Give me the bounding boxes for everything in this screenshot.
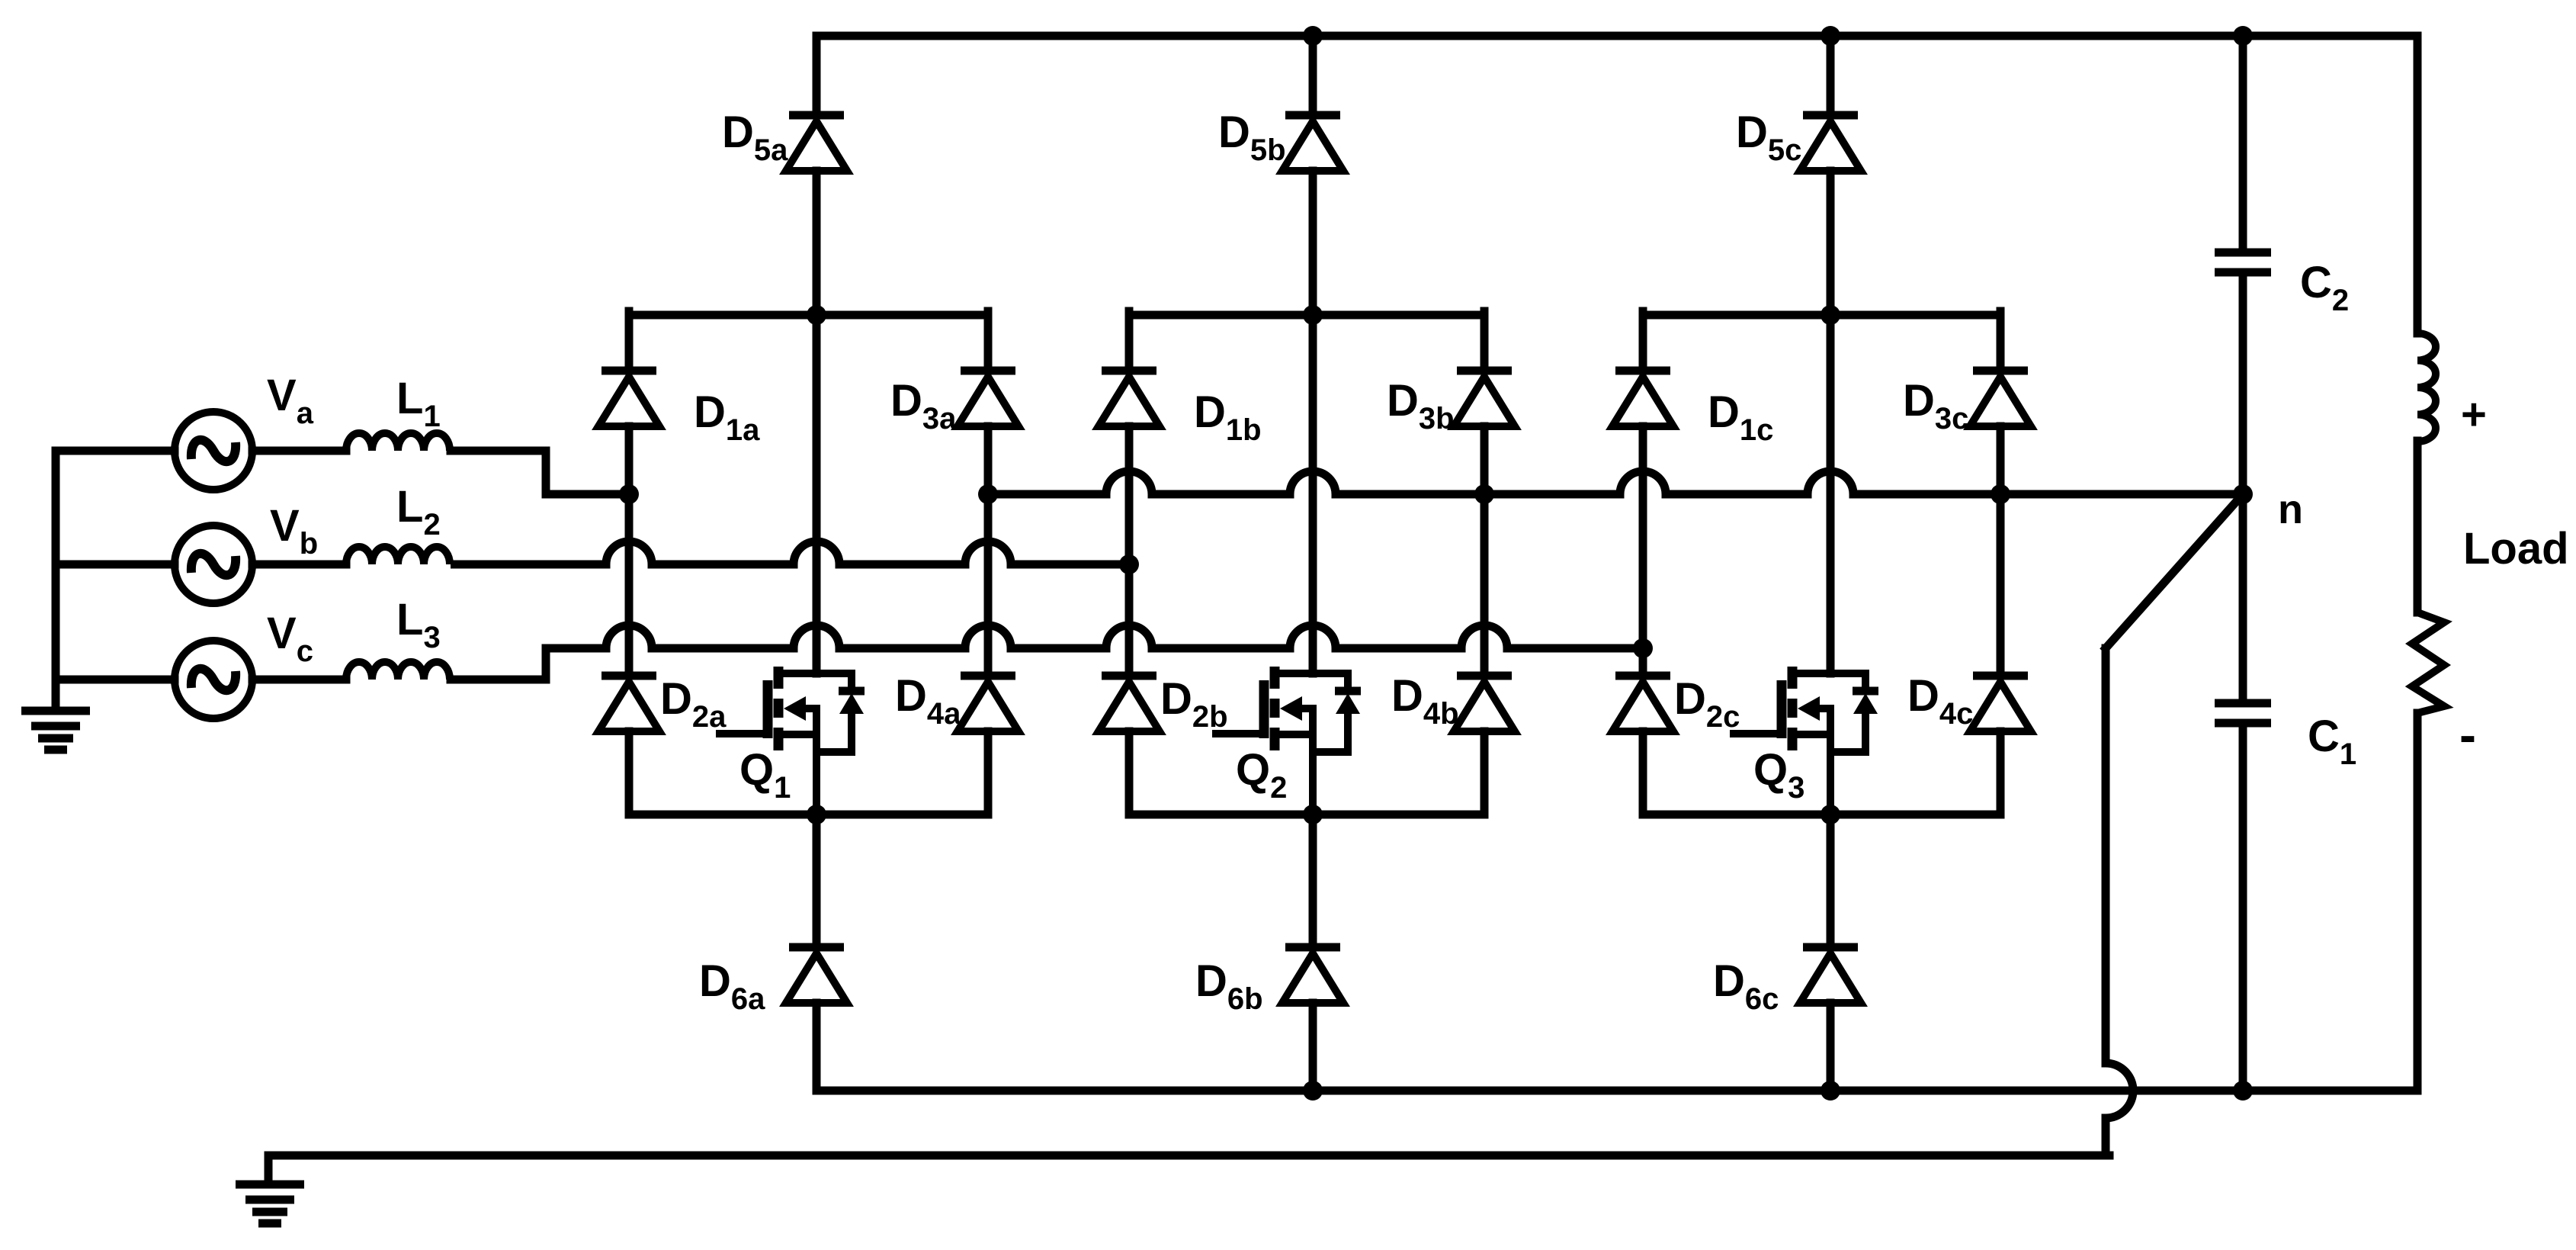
- wire D1c top lead: [1639, 311, 1647, 371]
- label D2b: [1160, 674, 1228, 734]
- diode D2c: [1612, 676, 1673, 731]
- label D1b: [1194, 387, 1262, 447]
- wire D3b top lead: [1480, 311, 1489, 371]
- svg-text:+: +: [2461, 390, 2487, 439]
- node D3c-D4c n tap: [1991, 484, 2010, 504]
- wire D6a top lead: [813, 815, 821, 947]
- diode D3b: [1454, 371, 1515, 426]
- label plus: [2461, 390, 2487, 439]
- wire bottom DC- rail: [816, 1087, 2417, 1095]
- wire D3b bottom lead to n junction: [1480, 426, 1489, 494]
- label Q2: [1236, 745, 1287, 805]
- wire D2a bottom lead: [625, 731, 634, 815]
- capacitor C2: [2215, 252, 2271, 272]
- diode D6a: [786, 947, 847, 1003]
- wire n diagonal: [2106, 494, 2243, 648]
- wire phase-a to D1a junction: [546, 490, 629, 499]
- wire leg c D5c cathode to top junction: [1827, 171, 1835, 315]
- wire L3 to step: [451, 676, 546, 684]
- wire D4c bottom lead: [1997, 731, 2005, 815]
- wire D4a bottom lead: [984, 731, 993, 815]
- source Vc: [175, 641, 252, 718]
- wire D3a bottom lead to n junction: [984, 426, 993, 494]
- node D3a-D4a n tap: [978, 484, 998, 504]
- label n: [2278, 487, 2303, 532]
- label L1: [396, 374, 441, 433]
- wire load top vertical: [2414, 36, 2422, 333]
- wire Va left lead: [56, 447, 175, 455]
- label D6b: [1195, 956, 1263, 1016]
- node rail / leg c: [1821, 1081, 1840, 1101]
- wire n-branch vertical lower: [2102, 1118, 2110, 1155]
- node leg a top junction: [807, 305, 826, 325]
- wire D2b bottom lead: [1125, 731, 1134, 815]
- node leg b top junction: [1303, 305, 1323, 325]
- wire Vb left lead: [56, 561, 175, 569]
- node D3b-D4b n tap: [1474, 484, 1494, 504]
- ground source side: [21, 711, 90, 750]
- transistor Q1: [720, 667, 865, 815]
- label Vb: [270, 501, 318, 561]
- diode D4a: [958, 676, 1019, 731]
- diode D3c: [1970, 371, 2031, 426]
- wire C2 bottom lead to n: [2239, 272, 2247, 494]
- wire n-branch vertical upper: [2102, 648, 2110, 1063]
- wire L1 to step: [451, 447, 546, 455]
- inductor L2: [346, 547, 450, 564]
- node phase a input: [619, 484, 639, 504]
- wire D3a top lead: [984, 311, 993, 371]
- wire leg a top horizontal: [629, 311, 988, 320]
- wire D2c top lead: [1639, 648, 1647, 676]
- label C2: [2300, 258, 2349, 317]
- wire Vc left lead: [56, 676, 175, 684]
- wire leg b top horizontal: [1129, 311, 1484, 320]
- wire D2b top lead: [1125, 564, 1134, 676]
- label Q3: [1753, 745, 1804, 805]
- ground bottom: [236, 1184, 304, 1223]
- label D1c: [1708, 387, 1773, 447]
- wire leg c center mid vertical: [1827, 315, 1835, 673]
- capacitor C1: [2215, 703, 2271, 723]
- wire phase-b line with crossovers: [451, 541, 1129, 564]
- diode D2a: [598, 676, 659, 731]
- diode D5a: [786, 115, 847, 171]
- transistor Q3: [1734, 667, 1878, 815]
- wire leg a center mid vertical: [813, 315, 821, 673]
- node leg c top junction: [1821, 305, 1840, 325]
- wire source common bus: [52, 451, 60, 711]
- label D3c: [1903, 376, 1968, 435]
- label Load: [2463, 524, 2569, 574]
- diode D5c: [1800, 115, 1861, 171]
- wire D4c top lead: [1997, 494, 2005, 676]
- label Q1: [739, 745, 791, 805]
- wire leg b D5b cathode to top junction: [1309, 171, 1317, 315]
- wire D6c bottom lead: [1827, 1003, 1835, 1091]
- wire D2c bottom lead: [1639, 731, 1647, 815]
- wire leg c bottom bus: [1643, 811, 2000, 819]
- wire Vb to L2: [252, 561, 346, 569]
- wire leg a bottom bus: [629, 811, 988, 819]
- diode D4c: [1970, 676, 2031, 731]
- wire D6b top lead: [1309, 815, 1317, 947]
- wire D6c top lead: [1827, 815, 1835, 947]
- node top rail / leg b: [1303, 26, 1323, 46]
- node leg c source bus: [1821, 805, 1840, 824]
- svg-text:-: -: [2459, 706, 2476, 763]
- label D6c: [1713, 956, 1779, 1016]
- load resistor: [2412, 612, 2444, 713]
- wire C1 top lead: [2239, 494, 2247, 703]
- label C1: [2308, 712, 2356, 771]
- wire leg a D5a anode lead: [813, 36, 821, 115]
- transistor Q2: [1216, 667, 1361, 815]
- node rail / leg b: [1303, 1081, 1323, 1101]
- svg-text:Load: Load: [2463, 524, 2569, 574]
- wire leg b D5b anode lead: [1309, 36, 1317, 115]
- wire bottom ground horizontal: [268, 1152, 2109, 1160]
- diode D3a: [958, 371, 1019, 426]
- wire ground 2 drop: [265, 1155, 273, 1181]
- wire D1a top lead: [625, 311, 634, 371]
- wire C1 bottom lead: [2239, 723, 2247, 1091]
- label D5c: [1736, 108, 1801, 167]
- label minus: [2459, 706, 2476, 763]
- diode D6c: [1800, 947, 1861, 1003]
- label L2: [396, 482, 441, 541]
- wire D1b top lead: [1125, 311, 1134, 371]
- node top rail / leg c: [1821, 26, 1840, 46]
- wire D4a top lead: [984, 494, 993, 676]
- wire D1b bottom lead to phase-b junction: [1125, 426, 1134, 564]
- wire D1c bottom lead to phase-c junction: [1639, 426, 1647, 648]
- wire Va to L1: [252, 447, 346, 455]
- wire D4b bottom lead: [1480, 731, 1489, 815]
- diode D1b: [1099, 371, 1160, 426]
- label D4b: [1391, 671, 1459, 731]
- wire C2 top lead: [2239, 36, 2247, 252]
- node leg b source bus: [1303, 805, 1323, 824]
- label D3a: [890, 376, 957, 435]
- node phase c input: [1633, 638, 1653, 658]
- label D2a: [660, 674, 727, 734]
- label D4c: [1907, 671, 1973, 731]
- diode D2b: [1099, 676, 1160, 731]
- wire D6b bottom lead: [1309, 1003, 1317, 1091]
- wire leg c top horizontal: [1643, 311, 2000, 320]
- wire load bottom vertical: [2414, 713, 2422, 1091]
- label D5b: [1218, 108, 1286, 167]
- node phase b input: [1119, 554, 1139, 574]
- label D6a: [699, 956, 765, 1016]
- wire D3c top lead: [1997, 311, 2005, 371]
- inductor L1: [346, 433, 450, 451]
- label D3b: [1387, 376, 1455, 435]
- inductor L3: [346, 662, 450, 680]
- diode D5b: [1282, 115, 1343, 171]
- wire phase-c line with crossovers: [546, 625, 1643, 648]
- source Va: [175, 412, 252, 490]
- wire leg a D5a cathode to top junction: [813, 171, 821, 315]
- label D4a: [895, 671, 961, 731]
- diode D4b: [1454, 676, 1515, 731]
- diode D1c: [1612, 371, 1673, 426]
- wire n-net horizontal with crossovers: [988, 471, 2243, 494]
- wire D4b top lead: [1480, 494, 1489, 676]
- label Va: [267, 371, 314, 430]
- wire n-branch crossover arc over DC- rail: [2106, 1063, 2133, 1118]
- wire D2a top lead: [625, 494, 634, 676]
- label L3: [396, 595, 441, 654]
- wire phase-c step: [542, 648, 550, 680]
- wire phase-a step: [542, 451, 550, 494]
- wire D3c bottom lead to n junction: [1997, 426, 2005, 494]
- source Vb: [175, 525, 252, 603]
- wire leg b center mid vertical: [1309, 315, 1317, 673]
- label D1a: [694, 387, 760, 447]
- node leg a source bus: [807, 805, 826, 824]
- wire top DC+ rail: [816, 32, 2417, 40]
- label Vc: [267, 609, 313, 668]
- wire D6a bottom lead: [813, 1003, 821, 1091]
- wire leg b bottom bus: [1129, 811, 1484, 819]
- label D2c: [1674, 674, 1740, 734]
- svg-text:n: n: [2278, 487, 2303, 532]
- diode D1a: [598, 371, 659, 426]
- diode D6b: [1282, 947, 1343, 1003]
- label D5a: [722, 108, 788, 167]
- wire Vc to L3: [252, 676, 346, 684]
- wire leg c D5c anode lead: [1827, 36, 1835, 115]
- node n: [2233, 484, 2253, 504]
- load inductor: [2417, 333, 2436, 442]
- node rail / C1: [2233, 1081, 2253, 1101]
- node top rail / C2: [2233, 26, 2253, 46]
- wire load inductor-resistor link: [2414, 441, 2422, 612]
- wire D1a bottom lead to phase-a junction: [625, 426, 634, 494]
